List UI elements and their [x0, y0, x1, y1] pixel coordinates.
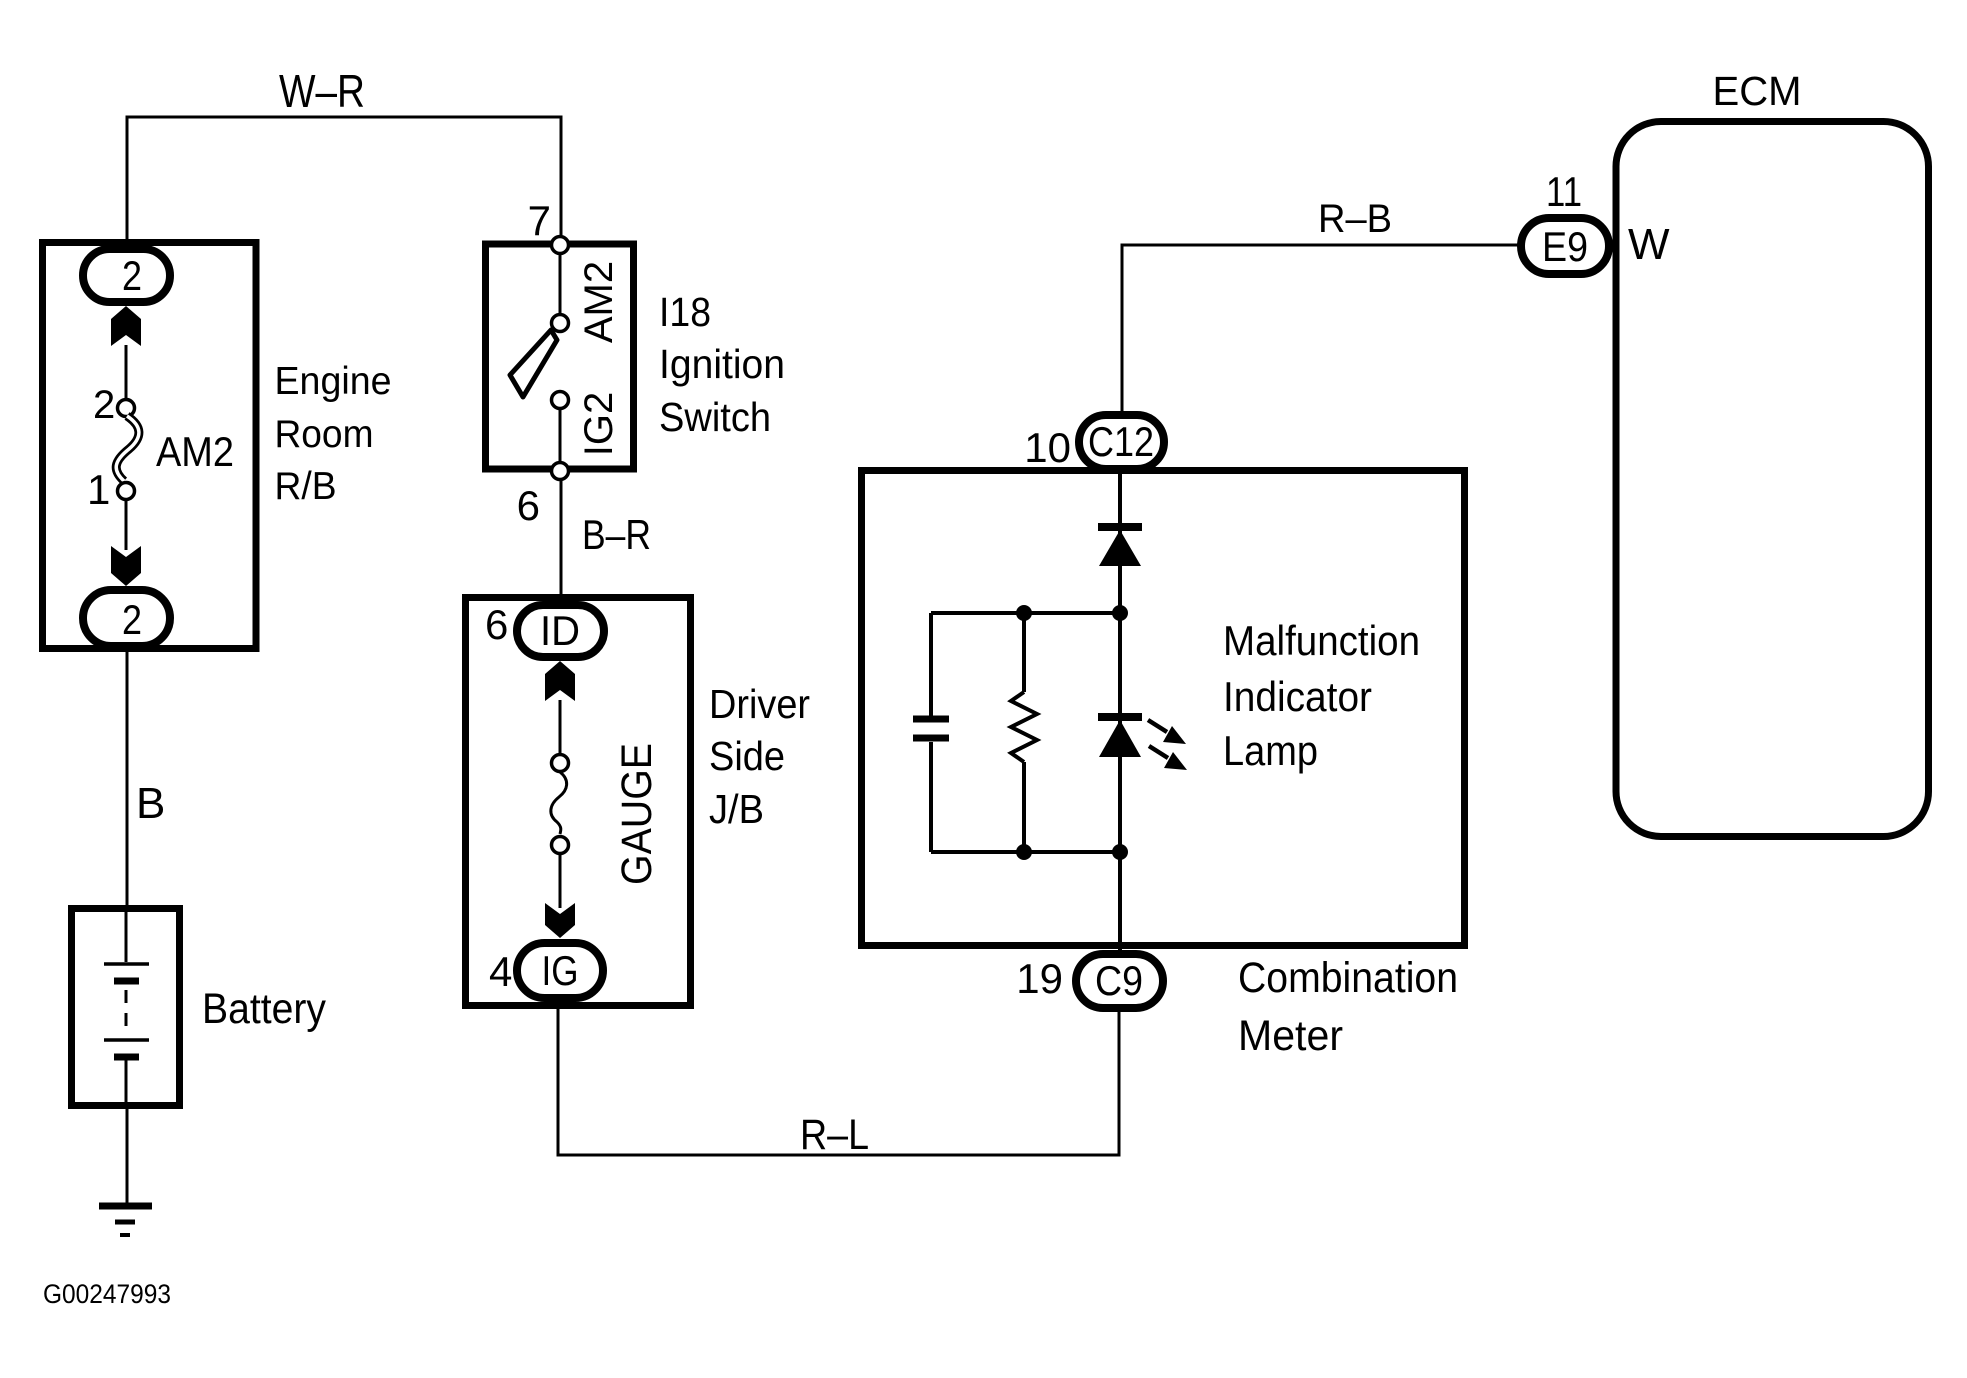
- svg-text:Lamp: Lamp: [1223, 727, 1318, 774]
- svg-text:Combination: Combination: [1238, 954, 1458, 1002]
- node junction top rail: [931, 611, 1120, 615]
- svg-text:Meter: Meter: [1238, 1012, 1343, 1060]
- svg-text:7: 7: [528, 197, 551, 244]
- Battery box: [72, 909, 180, 1106]
- Combination Meter box: [862, 471, 1465, 946]
- svg-text:1: 1: [87, 466, 110, 513]
- svg-text:Room: Room: [275, 413, 374, 456]
- connector IG: [517, 943, 603, 998]
- wire IG2 to pin 6: [559, 409, 562, 462]
- connector 2 (bottom, Engine Room R/B): [83, 590, 170, 646]
- svg-text:Switch: Switch: [659, 394, 771, 440]
- svg-text:Engine: Engine: [275, 360, 392, 403]
- connector 2 (top, Engine Room R/B): [83, 249, 170, 302]
- arrow down (to connector 2 bottom): [111, 546, 141, 586]
- pin 6 terminal: [552, 463, 569, 480]
- svg-text:Malfunction: Malfunction: [1223, 617, 1420, 664]
- svg-text:I18: I18: [659, 289, 711, 335]
- ECM box: [1616, 122, 1929, 837]
- Engine Room R/B box: [43, 243, 257, 649]
- connector ID: [517, 605, 604, 657]
- I18 Ignition Switch box: [486, 244, 634, 469]
- wire arrow to fuse GAUGE: [559, 700, 562, 754]
- resistor R1 branch: [1022, 613, 1026, 692]
- wire B from Engine Room R/B to Battery: [126, 650, 129, 907]
- svg-text:C9: C9: [1095, 957, 1143, 1004]
- IG2 contact: [552, 392, 569, 409]
- connector C9: [1076, 954, 1163, 1008]
- pin 7 terminal: [552, 237, 569, 254]
- svg-text:ECM: ECM: [1713, 68, 1802, 114]
- svg-text:W: W: [1628, 220, 1670, 269]
- svg-text:AM2: AM2: [156, 428, 234, 475]
- svg-text:Ignition: Ignition: [659, 341, 785, 387]
- wire R-B from Combination Meter pin 10 C12 to ECM pin 11 E9: [1122, 245, 1518, 414]
- arrow up (into connector 2): [111, 306, 141, 346]
- svg-text:10: 10: [1024, 424, 1071, 471]
- wire arrow to fuse AM2: [125, 345, 128, 399]
- wire B-R from Ignition Switch pin 6 to J/B pin 6 ID: [560, 470, 563, 605]
- battery cell symbol: [125, 908, 128, 962]
- svg-text:2: 2: [122, 252, 142, 299]
- svg-text:E9: E9: [1542, 223, 1588, 270]
- fuse AM2 element: [116, 416, 139, 481]
- svg-text:4: 4: [489, 948, 512, 995]
- fuse GAUGE bottom terminal: [552, 837, 569, 854]
- diode D1 (top): [1098, 523, 1142, 531]
- svg-text:R–B: R–B: [1318, 197, 1392, 241]
- wire W-R from Engine Room R/B pin 2 to Ignition Switch pin 7: [127, 117, 561, 243]
- wire pin7 to AM2 contact: [559, 254, 562, 314]
- wire fuse to arrow: [125, 500, 128, 550]
- fuse AM2 pin 2 terminal: [118, 400, 135, 417]
- wire fuse to arrow: [559, 854, 562, 908]
- ground: [99, 1203, 152, 1210]
- svg-text:6: 6: [485, 601, 508, 648]
- svg-text:J/B: J/B: [709, 786, 764, 832]
- meter main vertical wire: [1118, 468, 1122, 960]
- svg-text:2: 2: [93, 383, 115, 427]
- svg-text:C12: C12: [1088, 418, 1154, 465]
- svg-text:6: 6: [517, 482, 540, 529]
- svg-text:Indicator: Indicator: [1223, 673, 1372, 720]
- svg-text:W–R: W–R: [279, 65, 365, 117]
- svg-text:Side: Side: [709, 733, 785, 779]
- svg-text:B–R: B–R: [582, 511, 651, 558]
- LED emission arrow 2: [1149, 746, 1168, 758]
- svg-text:AM2: AM2: [577, 261, 621, 343]
- svg-text:G00247993: G00247993: [43, 1279, 171, 1309]
- svg-text:Driver: Driver: [709, 681, 810, 727]
- svg-text:Battery: Battery: [202, 985, 326, 1033]
- svg-text:19: 19: [1016, 955, 1063, 1002]
- svg-text:IG: IG: [542, 947, 579, 994]
- fuse GAUGE top terminal: [552, 755, 569, 772]
- svg-text:11: 11: [1546, 168, 1582, 215]
- connector C12: [1079, 415, 1164, 469]
- LED lamp diode: [1098, 713, 1142, 721]
- LED emission arrow 1: [1148, 720, 1167, 732]
- svg-text:B: B: [136, 779, 165, 828]
- wire battery to ground: [126, 1107, 129, 1203]
- node junction bottom rail: [931, 850, 1120, 854]
- svg-text:GAUGE: GAUGE: [613, 743, 661, 885]
- connector E9: [1521, 218, 1609, 274]
- wire R-L from J/B pin 4 IG to Combination Meter pin 19 C9: [558, 1005, 1119, 1155]
- Driver Side J/B box: [466, 598, 691, 1006]
- fuse GAUGE element: [551, 772, 567, 834]
- svg-text:2: 2: [122, 596, 142, 643]
- arrow up (into ID): [545, 661, 575, 701]
- fuse AM2 pin 1 terminal: [118, 483, 135, 500]
- switch lever: [510, 330, 557, 397]
- AM2 contact: [552, 315, 569, 332]
- arrow down (to IG): [545, 903, 575, 938]
- svg-text:IG2: IG2: [577, 392, 621, 456]
- capacitor C1 branch: [929, 613, 933, 716]
- svg-text:R–L: R–L: [800, 1111, 869, 1159]
- svg-text:R/B: R/B: [275, 465, 337, 508]
- svg-text:ID: ID: [540, 607, 580, 654]
